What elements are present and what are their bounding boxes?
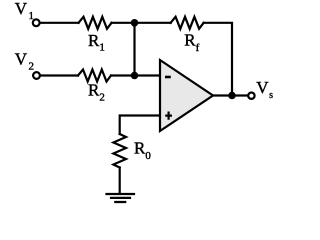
- svg-text:V1: V1: [15, 0, 34, 22]
- svg-text:Vs: Vs: [256, 78, 273, 101]
- terminal V2: [33, 72, 40, 79]
- node A junction: [131, 19, 139, 27]
- svg-text:V2: V2: [15, 50, 34, 73]
- wire node B to op-amp inverting input: [135, 74, 160, 76]
- wire R0 to ground: [119, 168, 121, 194]
- terminal Vs: [248, 93, 254, 99]
- wire V2 to R2: [41, 74, 79, 76]
- wire Rf to output node: [204, 23, 232, 96]
- terminal V1: [33, 19, 40, 26]
- op-amp plus sign: [165, 112, 172, 120]
- svg-text:R1: R1: [88, 31, 105, 54]
- op-amp minus sign: [165, 76, 171, 79]
- resistor R0: [113, 134, 126, 168]
- output node junction: [228, 92, 236, 100]
- ground: [107, 194, 135, 202]
- wire R1 to node A: [112, 22, 135, 24]
- node B junction: [131, 72, 139, 80]
- wire op-amp noninverting input to R0: [120, 116, 159, 135]
- svg-text:R2: R2: [88, 81, 105, 104]
- wire node A to node B: [133, 23, 135, 76]
- wire node A to Rf: [135, 22, 171, 24]
- resistor Rf: [171, 17, 204, 29]
- wire V1 to R1: [40, 22, 78, 24]
- svg-text:R0: R0: [134, 139, 151, 162]
- resistor R1: [79, 17, 112, 29]
- svg-text:Rf: Rf: [184, 31, 199, 54]
- wire R2 to node B: [111, 74, 135, 76]
- op-amp U1: [160, 60, 213, 131]
- wire op-amp output to terminal Vs: [213, 94, 248, 96]
- resistor R2: [78, 70, 111, 82]
